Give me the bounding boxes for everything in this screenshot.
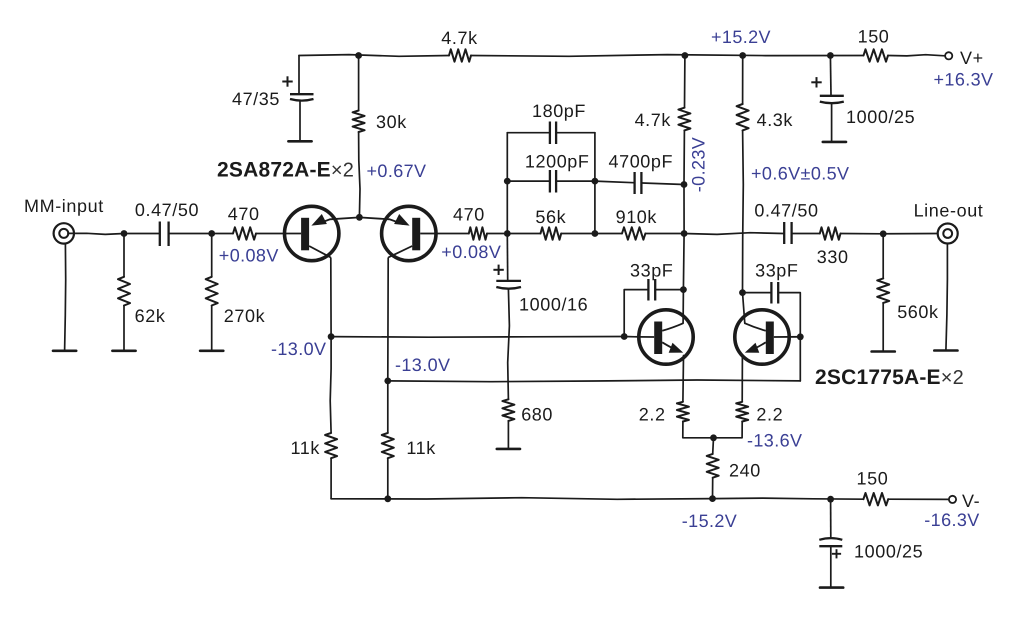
wire rail node down to 30k	[358, 56, 360, 111]
wire Q2 collector node to 11k	[387, 381, 389, 433]
wire 4700pF node to node E	[683, 185, 685, 234]
wire Line-out sleeve to ground	[946, 244, 948, 351]
wire node C to 56k	[507, 233, 540, 235]
wire T2 base to 470	[436, 233, 469, 235]
wire output cap to 330	[793, 233, 820, 235]
wire node D to 910k	[595, 233, 622, 235]
resistor 680	[502, 399, 514, 421]
svg-text:+0.08V: +0.08V	[441, 242, 501, 262]
svg-text:4.3k: 4.3k	[757, 110, 794, 130]
svg-text:30k: 30k	[376, 112, 407, 132]
node junction rail/1000-25 cap	[827, 52, 834, 59]
svg-text:2SA872A-E×2: 2SA872A-E×2	[217, 159, 354, 182]
ground (MM-input)	[53, 349, 76, 352]
ground (Line-out)	[934, 349, 957, 352]
node junction 1200pF right	[592, 178, 599, 185]
resistor 910k	[622, 227, 645, 239]
polarity + of 47/35	[282, 81, 292, 83]
wire 560k to ground	[882, 303, 884, 352]
resistor 2.2 (Q4 emitter)	[736, 402, 748, 422]
node E (feedback/output junction)	[681, 230, 688, 237]
resistor 2.2 (Q3 emitter)	[677, 402, 689, 422]
wire 33pF-B left plate to column	[743, 292, 771, 294]
node junction 33pF-A / Q3 base	[621, 333, 628, 340]
resistor 330	[820, 227, 841, 239]
wire right riser 180pF to 1200pF	[594, 133, 596, 181]
svg-text:-0.23V: -0.23V	[689, 137, 709, 192]
node junction V- rail/11k-Q2	[384, 495, 391, 502]
svg-text:47/35: 47/35	[232, 89, 280, 109]
polarity + of 1000/25 (top)	[811, 81, 821, 83]
svg-text:150: 150	[856, 469, 888, 489]
svg-text:0.47/50: 0.47/50	[754, 201, 818, 221]
wire Q1 collector to Q3 base (long)	[331, 336, 624, 339]
capacitor C 33pF (Q3)	[647, 279, 649, 301]
svg-text:+16.3V: +16.3V	[934, 70, 994, 90]
wire V- rail to terminal	[888, 498, 949, 500]
node emitters junction (T1/T2 emitters + 30k)	[356, 214, 363, 221]
wire V- rail left segment	[331, 498, 712, 500]
resistor 4.7k (series in V+ rail)	[449, 49, 471, 61]
svg-text:56k: 56k	[535, 207, 566, 227]
capacitor C 1200pF	[549, 170, 551, 193]
transistor Q2 2SA872A-E (PNP, feedback)	[359, 206, 436, 260]
ground (680)	[497, 448, 520, 451]
wire 4700pF row right	[642, 183, 684, 185]
polarity + of 1000/16	[493, 269, 503, 271]
node junction 33pF-A / Q3 collector column	[680, 286, 687, 293]
svg-text:1000/25: 1000/25	[854, 542, 923, 562]
wire 4.3k down to 33pF node (crosses output line)	[742, 130, 745, 292]
wire 1200pF row right	[557, 180, 595, 182]
svg-text:MM-input: MM-input	[24, 196, 104, 216]
transistor Q4 2SC1775A-E (NPN)	[735, 310, 801, 364]
svg-text:V-: V-	[962, 491, 980, 511]
resistor 30k	[353, 111, 365, 133]
node junction V- rail/1000-25 cap	[827, 496, 834, 503]
resistor 4.7k (Q3 collector load)	[678, 108, 690, 131]
svg-text:1200pF: 1200pF	[525, 152, 590, 172]
wire 4.7k to 4700pF node	[683, 130, 685, 184]
wire 33pF-A left loop	[624, 290, 647, 337]
wire Q4 base riser	[799, 337, 801, 381]
node junction Q2 collector/-13.0V line	[384, 378, 391, 385]
wire node C up to 1200pF row	[506, 181, 508, 233]
wire V+ rail middle segment	[471, 55, 864, 57]
svg-text:V+: V+	[960, 48, 984, 68]
wire 180pF row left	[507, 132, 549, 134]
svg-text:470: 470	[453, 205, 485, 225]
wire rail to 4.3k (column)	[742, 56, 744, 105]
svg-text:+0.08V: +0.08V	[219, 246, 279, 266]
svg-text:2.2: 2.2	[756, 405, 783, 425]
node junction Q1 collector/-13.0V line	[328, 333, 335, 340]
capacitor C 1000/16 (electrolytic)	[496, 234, 521, 289]
svg-text:1000/25: 1000/25	[846, 107, 915, 127]
svg-text:4.7k: 4.7k	[441, 28, 478, 48]
transistor Q1 2SA872A-E (PNP, input)	[285, 206, 360, 260]
capacitor C 1000/25 (V- filter, electrolytic)	[819, 499, 842, 546]
connector Line-out jack	[938, 224, 958, 244]
terminal V+	[945, 52, 952, 59]
svg-text:-15.2V: -15.2V	[682, 511, 737, 531]
svg-text:150: 150	[858, 27, 890, 47]
connector MM-input jack	[54, 223, 74, 243]
wire Q3 base node to Q3	[624, 336, 639, 338]
wire rail to 4.7k (column)	[684, 56, 686, 108]
svg-text:-13.0V: -13.0V	[271, 339, 326, 359]
svg-text:11k: 11k	[291, 438, 321, 458]
resistor 4.3k (Q4 collector load)	[737, 104, 749, 130]
wire node G to 240	[712, 438, 715, 454]
ground (270k)	[200, 349, 223, 352]
svg-text:180pF: 180pF	[532, 101, 586, 121]
terminal V-	[949, 496, 956, 503]
wire 4700pF row left	[595, 181, 634, 183]
ground (47/35)	[288, 140, 311, 143]
wire 240 to V- rail	[712, 478, 714, 499]
node junction 1200pF left	[504, 178, 511, 185]
label 2SA872A-E x2 (PNP pair name)	[217, 159, 354, 182]
svg-text:+15.2V: +15.2V	[711, 27, 771, 47]
ground (560k)	[872, 350, 895, 353]
wire 62k top	[123, 234, 125, 277]
svg-text:1000/16: 1000/16	[519, 295, 588, 315]
svg-text:+0.67V: +0.67V	[367, 161, 427, 181]
capacitor C 180pF	[549, 122, 551, 145]
resistor 62k	[118, 277, 130, 306]
wire 270k to ground	[211, 306, 213, 351]
wire right riser 1200pF to 56k node	[594, 181, 596, 233]
wire 1000/16 to 680	[508, 289, 510, 399]
wire node F to Line-out	[883, 233, 937, 235]
wire 11k to V- rail node	[387, 458, 389, 499]
node junction rail/4.7k column	[682, 52, 689, 59]
wire 1000/25 to ground (bottom)	[830, 546, 832, 587]
wire 1200pF row left	[507, 180, 549, 182]
wire V+ rail to terminal	[888, 55, 945, 56]
svg-text:-13.0V: -13.0V	[395, 355, 450, 375]
wire MM-input to node A	[68, 233, 124, 234]
svg-text:2.2: 2.2	[639, 405, 666, 425]
wire 30k to emitters node	[359, 132, 360, 217]
capacitor C 1000/25 (V+ filter, electrolytic)	[820, 56, 844, 104]
wire V- rail middle segment	[713, 498, 864, 499]
svg-text:330: 330	[817, 247, 849, 267]
wire node A to C0.47 left	[124, 233, 159, 235]
wire Q4 emitter down	[741, 356, 743, 402]
wire rail corner down to 47/35	[298, 56, 300, 95]
wire Q4 emitter corner	[714, 422, 743, 438]
wire 33pF-B right loop	[779, 293, 800, 337]
wire 680 to ground	[507, 421, 509, 449]
wire 11k to V- rail corner	[330, 458, 332, 499]
node D (56k/910k junction)	[592, 230, 599, 237]
wire Q2 collector down	[387, 258, 389, 381]
wire node E down to 33pF node	[682, 234, 685, 290]
node junction rail/30k	[355, 52, 362, 59]
capacitor C 0.47/50 (input)	[159, 222, 161, 247]
wire 910k to node E	[645, 233, 684, 235]
node A (input/62k junction)	[121, 230, 128, 237]
wire 33pF-A right plate to column	[656, 289, 683, 291]
svg-text:+0.6V±0.5V: +0.6V±0.5V	[751, 164, 849, 184]
resistor 56k	[541, 227, 562, 239]
wire 33pF node to Q3 collector	[682, 290, 684, 324]
resistor 150 (V+ filter)	[864, 49, 889, 61]
resistor 11k (Q2)	[382, 433, 394, 458]
capacitor C 0.47/50 (output)	[783, 222, 785, 244]
wire MM jack sleeve to ground	[65, 244, 66, 351]
ground (62k)	[112, 349, 135, 352]
node F (560k junction)	[880, 230, 887, 237]
capacitor C 47/35 (electrolytic)	[290, 93, 314, 95]
svg-text:910k: 910k	[616, 207, 658, 227]
svg-text:2SC1775A-E×2: 2SC1775A-E×2	[815, 366, 964, 389]
wire node E to output cap	[684, 233, 783, 235]
wire Q1 collector node to 11k	[329, 337, 332, 433]
wire 270k top	[211, 234, 213, 277]
node C (feedback divider node)	[504, 230, 511, 237]
node junction V- rail/240	[709, 495, 716, 502]
resistor 11k (Q1)	[325, 433, 337, 458]
svg-text:4.7k: 4.7k	[635, 110, 672, 130]
wire 330 to node F	[841, 233, 884, 235]
wire 470 to node C	[487, 233, 507, 235]
resistor 240 (tail)	[707, 454, 719, 478]
ground (1000/25 bottom)	[820, 586, 843, 589]
svg-text:62k: 62k	[135, 306, 166, 326]
svg-text:560k: 560k	[897, 302, 939, 322]
node junction 33pF-B / Q4 base	[797, 333, 804, 340]
svg-text:-16.3V: -16.3V	[924, 510, 979, 530]
wire 56k to node D	[561, 233, 595, 235]
svg-text:0.47/50: 0.47/50	[135, 200, 199, 220]
svg-text:11k: 11k	[406, 438, 436, 458]
wire Q3 emitter corner	[683, 422, 714, 438]
wire V+ rail left segment	[299, 55, 449, 57]
transistor Q3 2SC1775A-E (NPN)	[639, 310, 693, 364]
wire node B to 470	[212, 233, 233, 235]
wire 560k top	[882, 234, 884, 279]
label 2SC1775A-E x2 (NPN pair name)	[815, 366, 964, 389]
polarity + of 1000/25 (bottom)	[832, 553, 841, 555]
wire 62k to ground	[123, 306, 125, 351]
resistor 150 (V- filter)	[863, 493, 888, 505]
capacitor C 33pF (Q4)	[770, 282, 772, 304]
wire 47/35 to ground	[299, 101, 301, 141]
svg-text:-13.6V: -13.6V	[747, 431, 802, 451]
wire Q2 collector to Q4 base (long)	[388, 380, 801, 382]
resistor 470 (T1 base)	[233, 227, 256, 239]
svg-text:680: 680	[521, 405, 553, 425]
wire Q3 emitter down	[682, 356, 685, 402]
resistor 560k	[877, 278, 889, 303]
wire C0.47 to node B	[170, 233, 212, 235]
svg-text:240: 240	[729, 461, 761, 481]
node junction 4700pF/4.7k column	[681, 181, 688, 188]
node junction rail/4.3k column	[739, 52, 746, 59]
wire 1000/25 to ground (top)	[831, 104, 833, 142]
svg-text:33pF: 33pF	[755, 261, 798, 281]
svg-text:470: 470	[228, 204, 260, 224]
svg-text:Line-out: Line-out	[914, 201, 984, 221]
svg-text:4700pF: 4700pF	[608, 152, 673, 172]
resistor 470 (T2 base)	[469, 227, 487, 239]
node G (emitter resistors junction)	[710, 434, 717, 441]
wire left riser to 180pF row	[506, 133, 508, 181]
capacitor C 4700pF	[633, 172, 635, 194]
node junction 33pF-B / Q4 collector column	[739, 289, 746, 296]
wire 33pF node to Q4 collector	[743, 293, 745, 324]
wire Q1 collector down	[330, 258, 332, 337]
svg-text:270k: 270k	[224, 306, 266, 326]
resistor 270k	[206, 277, 218, 306]
node B (270k junction)	[208, 230, 215, 237]
wire 180pF row right	[557, 132, 595, 134]
wire 470 to T1 base	[256, 233, 284, 235]
ground (1000/25 top)	[823, 141, 846, 144]
svg-text:33pF: 33pF	[630, 261, 673, 281]
